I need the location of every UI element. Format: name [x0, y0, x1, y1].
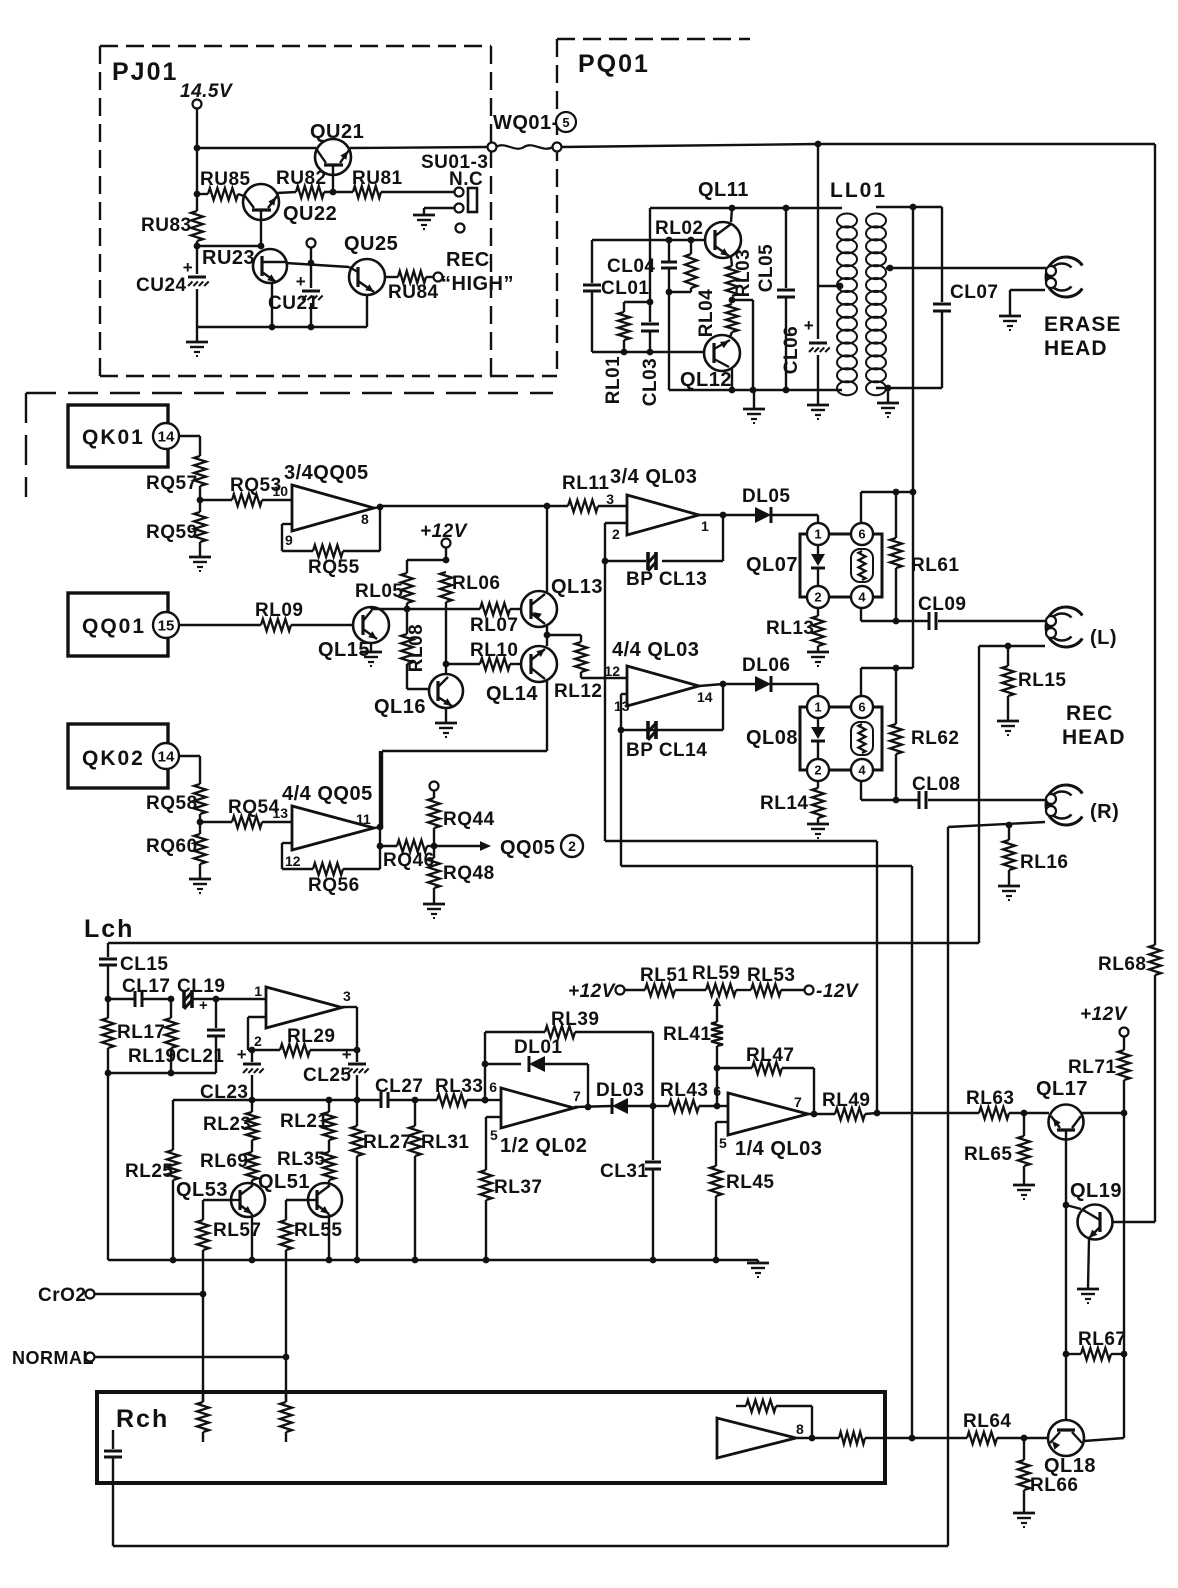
svg-text:6: 6 [858, 527, 865, 542]
svg-text:RL33: RL33 [435, 1076, 483, 1097]
svg-text:CU21: CU21 [268, 293, 319, 314]
svg-text:RL62: RL62 [911, 728, 959, 749]
svg-text:3: 3 [343, 988, 351, 1004]
svg-text:RL66: RL66 [1030, 1475, 1078, 1496]
svg-text:CU24: CU24 [136, 275, 187, 296]
svg-text:WQ01-: WQ01- [493, 112, 559, 134]
svg-text:2: 2 [612, 526, 620, 542]
svg-text:N.C: N.C [449, 169, 483, 190]
svg-text:QL17: QL17 [1036, 1078, 1088, 1100]
svg-text:4/4 QL03: 4/4 QL03 [612, 639, 699, 661]
svg-text:RL35: RL35 [277, 1149, 325, 1170]
svg-text:RL69: RL69 [200, 1151, 248, 1172]
svg-text:RL49: RL49 [822, 1090, 870, 1111]
svg-text:NORMAL: NORMAL [12, 1348, 94, 1368]
svg-text:1: 1 [701, 518, 709, 534]
svg-text:RL63: RL63 [966, 1088, 1014, 1109]
svg-text:14: 14 [158, 428, 175, 445]
svg-text:CL08: CL08 [912, 774, 960, 795]
svg-text:7: 7 [794, 1094, 802, 1110]
svg-text:QL08: QL08 [746, 727, 798, 749]
svg-text:RU85: RU85 [200, 169, 251, 190]
svg-text:DL06: DL06 [742, 655, 790, 676]
svg-text:RU83: RU83 [141, 215, 192, 236]
svg-text:-12V: -12V [816, 981, 859, 1002]
svg-text:(L): (L) [1090, 627, 1117, 649]
svg-text:PJ01: PJ01 [112, 58, 178, 86]
svg-text:CL27: CL27 [375, 1076, 423, 1097]
svg-text:RL01: RL01 [603, 356, 624, 404]
svg-text:RL27: RL27 [363, 1132, 411, 1153]
svg-text:RL59: RL59 [692, 963, 740, 984]
svg-text:+: + [804, 316, 814, 335]
svg-text:RQ44: RQ44 [443, 809, 495, 830]
svg-text:2: 2 [814, 763, 821, 778]
svg-text:QL19: QL19 [1070, 1180, 1122, 1202]
svg-text:REC: REC [1066, 702, 1113, 725]
svg-text:REC: REC [446, 249, 490, 271]
svg-text:CrO2: CrO2 [38, 1285, 86, 1306]
svg-text:RL31: RL31 [421, 1132, 469, 1153]
svg-text:RQ55: RQ55 [308, 557, 360, 578]
svg-text:1: 1 [814, 700, 821, 715]
svg-text:RL21: RL21 [280, 1111, 328, 1132]
svg-text:RL11: RL11 [562, 473, 609, 494]
svg-text:9: 9 [285, 532, 293, 548]
svg-text:11: 11 [356, 811, 371, 827]
svg-text:QL18: QL18 [1044, 1455, 1096, 1477]
svg-text:12: 12 [604, 663, 620, 679]
svg-text:RL07: RL07 [470, 615, 518, 636]
svg-text:RL68: RL68 [1098, 954, 1146, 975]
svg-text:RL41: RL41 [663, 1024, 711, 1045]
svg-text:DL05: DL05 [742, 486, 790, 507]
svg-text:RL13: RL13 [766, 618, 814, 639]
svg-text:RL29: RL29 [287, 1026, 335, 1047]
svg-text:1/2 QL02: 1/2 QL02 [500, 1135, 587, 1157]
svg-text:5: 5 [562, 115, 569, 130]
svg-text:8: 8 [796, 1421, 804, 1437]
svg-text:RU84: RU84 [388, 282, 439, 303]
svg-text:RL04: RL04 [696, 289, 717, 337]
svg-text:8: 8 [361, 511, 369, 527]
svg-text:6: 6 [713, 1083, 721, 1099]
svg-text:RQ57: RQ57 [146, 473, 198, 494]
svg-text:RL14: RL14 [760, 793, 808, 814]
svg-text:CL15: CL15 [120, 954, 168, 975]
svg-text:RL39: RL39 [551, 1009, 599, 1030]
svg-text:“HIGH”: “HIGH” [441, 273, 514, 295]
svg-text:DL03: DL03 [596, 1080, 644, 1101]
svg-text:RL12: RL12 [554, 681, 602, 702]
svg-text:RL61: RL61 [911, 555, 959, 576]
svg-text:RL06: RL06 [452, 573, 500, 594]
svg-text:6: 6 [858, 700, 865, 715]
svg-text:CL07: CL07 [950, 282, 998, 303]
svg-text:RL23: RL23 [203, 1114, 251, 1135]
svg-text:+: + [342, 1045, 352, 1064]
svg-text:3/4 QL03: 3/4 QL03 [610, 466, 697, 488]
svg-text:RU82: RU82 [276, 168, 327, 189]
svg-text:1: 1 [814, 527, 821, 542]
svg-text:RL64: RL64 [963, 1411, 1011, 1432]
svg-text:6: 6 [489, 1079, 497, 1095]
svg-text:1: 1 [254, 983, 262, 999]
svg-text:RL53: RL53 [747, 965, 795, 986]
svg-text:7: 7 [573, 1088, 581, 1104]
svg-text:QL07: QL07 [746, 554, 798, 576]
svg-text:CL01: CL01 [601, 278, 649, 299]
svg-text:RQ56: RQ56 [308, 875, 360, 896]
svg-text:RQ58: RQ58 [146, 793, 198, 814]
svg-text:4: 4 [858, 763, 866, 778]
svg-text:15: 15 [158, 617, 175, 634]
svg-text:13: 13 [272, 805, 288, 821]
svg-text:2: 2 [568, 838, 576, 854]
svg-text:DL01: DL01 [514, 1037, 562, 1058]
svg-text:CL05: CL05 [756, 244, 777, 292]
svg-text:14: 14 [697, 689, 713, 705]
svg-text:RL45: RL45 [726, 1172, 774, 1193]
svg-text:Rch: Rch [116, 1405, 169, 1433]
svg-text:RL57: RL57 [213, 1220, 261, 1241]
svg-text:RL55: RL55 [294, 1220, 342, 1241]
svg-text:CL31: CL31 [600, 1161, 648, 1182]
svg-text:14.5V: 14.5V [180, 81, 233, 102]
svg-text:QL13: QL13 [551, 576, 603, 598]
svg-text:3/4QQ05: 3/4QQ05 [284, 462, 369, 484]
svg-text:RL09: RL09 [255, 600, 303, 621]
svg-text:CL19: CL19 [177, 976, 225, 997]
svg-text:RL47: RL47 [746, 1045, 794, 1066]
svg-text:(R): (R) [1090, 801, 1119, 823]
svg-text:14: 14 [158, 748, 175, 765]
svg-text:CL17: CL17 [122, 976, 170, 997]
svg-text:CL21: CL21 [176, 1046, 224, 1067]
svg-text:LL01: LL01 [830, 179, 887, 202]
svg-text:QL11: QL11 [698, 179, 749, 201]
svg-text:CL25: CL25 [303, 1065, 351, 1086]
svg-text:QU25: QU25 [344, 233, 398, 255]
svg-text:5: 5 [490, 1127, 498, 1143]
svg-text:BP CL13: BP CL13 [626, 569, 707, 590]
svg-text:RL05: RL05 [355, 581, 403, 602]
svg-text:RL10: RL10 [470, 640, 518, 661]
svg-text:HEAD: HEAD [1044, 337, 1108, 360]
svg-text:RL37: RL37 [494, 1177, 542, 1198]
svg-text:RL43: RL43 [660, 1080, 708, 1101]
svg-text:+: + [296, 272, 306, 291]
svg-text:5: 5 [719, 1135, 727, 1151]
svg-text:+: + [237, 1045, 247, 1064]
svg-text:QQ01: QQ01 [82, 615, 146, 638]
svg-text:QL51: QL51 [258, 1171, 310, 1193]
svg-text:RL08: RL08 [406, 624, 427, 672]
svg-text:RL65: RL65 [964, 1144, 1012, 1165]
svg-text:RL51: RL51 [640, 965, 688, 986]
svg-text:RU81: RU81 [352, 168, 403, 189]
svg-text:+12V: +12V [568, 981, 616, 1002]
svg-text:QU21: QU21 [310, 121, 364, 143]
svg-text:RL67: RL67 [1078, 1329, 1126, 1350]
svg-text:CL06: CL06 [781, 326, 802, 374]
svg-text:QU22: QU22 [283, 203, 337, 225]
svg-text:QL12: QL12 [680, 369, 732, 391]
svg-text:RU23: RU23 [202, 247, 255, 269]
svg-text:RL19: RL19 [128, 1046, 176, 1067]
svg-text:RL02: RL02 [655, 218, 703, 239]
svg-text:RL16: RL16 [1020, 852, 1068, 873]
svg-text:RQ59: RQ59 [146, 522, 198, 543]
svg-text:ERASE: ERASE [1044, 313, 1121, 336]
svg-text:CL09: CL09 [918, 594, 966, 615]
svg-text:QL53: QL53 [176, 1179, 228, 1201]
svg-text:RL25: RL25 [125, 1161, 173, 1182]
svg-text:3: 3 [606, 491, 614, 507]
svg-text:RL17: RL17 [117, 1022, 165, 1043]
svg-text:4: 4 [858, 590, 866, 605]
svg-text:QL14: QL14 [486, 683, 538, 705]
svg-text:QQ05: QQ05 [500, 837, 555, 859]
svg-text:BP CL14: BP CL14 [626, 740, 707, 761]
svg-text:QL16: QL16 [374, 696, 426, 718]
svg-text:2: 2 [254, 1033, 262, 1049]
svg-text:RQ48: RQ48 [443, 863, 495, 884]
svg-text:QL15: QL15 [318, 639, 370, 661]
svg-text:PQ01: PQ01 [578, 50, 650, 78]
svg-text:Lch: Lch [84, 915, 134, 943]
svg-text:4/4 QQ05: 4/4 QQ05 [282, 783, 373, 805]
svg-text:+12V: +12V [1080, 1004, 1128, 1025]
svg-text:10: 10 [272, 483, 288, 499]
svg-text:CL04: CL04 [607, 256, 655, 277]
svg-text:+: + [199, 997, 208, 1014]
svg-text:1/4 QL03: 1/4 QL03 [735, 1138, 822, 1160]
svg-text:RQ60: RQ60 [146, 836, 198, 857]
svg-text:QK01: QK01 [82, 426, 145, 449]
svg-text:12: 12 [285, 853, 301, 869]
svg-text:HEAD: HEAD [1062, 726, 1126, 749]
svg-text:RL15: RL15 [1018, 670, 1066, 691]
svg-text:QK02: QK02 [82, 747, 145, 770]
svg-text:RL71: RL71 [1068, 1057, 1116, 1078]
svg-text:2: 2 [814, 590, 821, 605]
svg-text:CL03: CL03 [640, 358, 661, 406]
svg-text:RL03: RL03 [733, 249, 754, 297]
